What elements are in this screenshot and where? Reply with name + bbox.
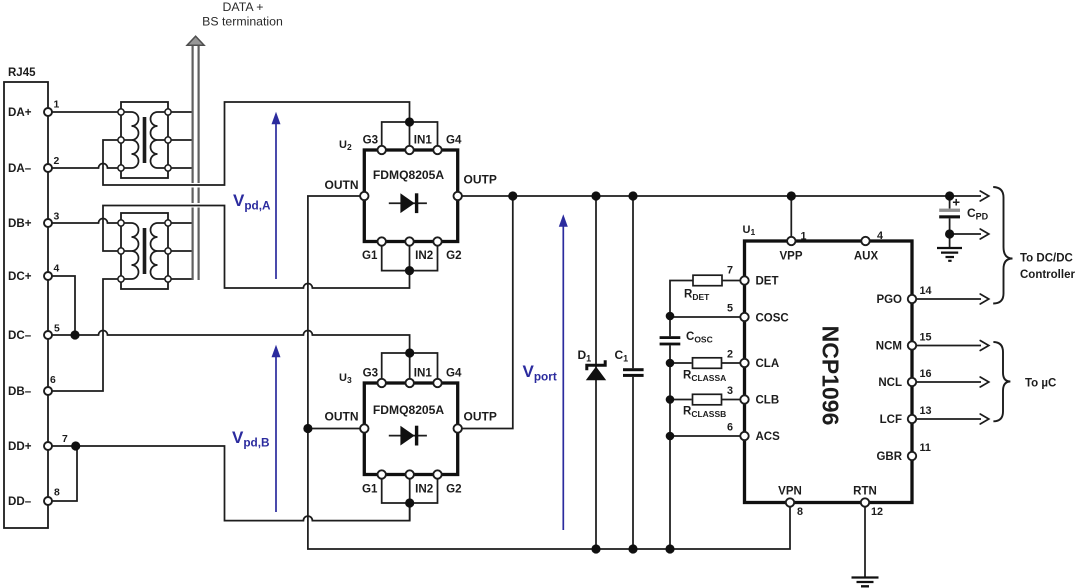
voltage arrow Vport xyxy=(559,214,568,530)
svg-text:G1: G1 xyxy=(362,482,378,495)
svg-text:FDMQ8205A: FDMQ8205A xyxy=(373,403,445,417)
junction top rail at C1 xyxy=(628,191,637,200)
svg-text:11: 11 xyxy=(920,442,931,454)
arrowhead NCM xyxy=(980,341,989,351)
U1 pin name labels left xyxy=(756,276,789,444)
voltage arrow Vpd,B xyxy=(272,345,281,512)
wire CLB pin 3 through RCLASSB xyxy=(670,399,740,401)
U2 internal diode symbol xyxy=(389,193,427,213)
op bridge U2 body xyxy=(364,150,457,242)
wire U2 top gate bracket G3-IN1-G4 xyxy=(382,122,438,146)
svg-text:2: 2 xyxy=(727,349,733,361)
svg-text:OUTP: OUTP xyxy=(464,410,497,424)
svg-text:12: 12 xyxy=(871,506,883,518)
svg-text:FDMQ8205A: FDMQ8205A xyxy=(373,168,445,182)
wire U2 bottom bracket and IN2 rail to T2 center-tap xyxy=(103,206,438,289)
wire U3 bottom gate bracket and IN2 stub xyxy=(382,479,438,521)
svg-text:DET: DET xyxy=(756,276,779,288)
svg-text:DC+: DC+ xyxy=(8,270,32,283)
svg-text:To µC: To µC xyxy=(1025,378,1056,390)
arrowhead CPD node to DC/DC xyxy=(980,229,989,239)
junction CPD lower node xyxy=(945,229,954,238)
svg-text:OUTN: OUTN xyxy=(325,410,359,424)
svg-text:DB+: DB+ xyxy=(8,217,32,230)
svg-text:DA–: DA– xyxy=(8,162,32,175)
svg-text:G3: G3 xyxy=(363,366,379,379)
RJ45 pin 5 circle xyxy=(44,331,52,339)
junction top rail at U3 OUTP riser xyxy=(508,191,517,200)
svg-text:16: 16 xyxy=(920,368,932,380)
class network junction at COSC pin xyxy=(666,312,675,321)
wire T1 center-tap to top rail to U2 IN1 xyxy=(103,102,410,185)
wire COSC pin 5 xyxy=(670,316,740,318)
svg-text:IN1: IN1 xyxy=(414,366,433,379)
wire PGO arrow xyxy=(916,298,981,300)
svg-text:IN2: IN2 xyxy=(415,249,433,262)
junction top rail at VPP xyxy=(787,191,796,200)
svg-text:G2: G2 xyxy=(446,482,461,495)
RJ45 pin 6 circle xyxy=(44,387,52,395)
wire RJ45 pin4 DC+ down to DC- node xyxy=(52,276,75,335)
capacitor CPD plates xyxy=(939,199,960,219)
ground symbol below CPD xyxy=(937,248,962,261)
svg-text:To DC/DC: To DC/DC xyxy=(1020,253,1073,265)
U3 pin name labels xyxy=(362,366,462,495)
capacitor COSC xyxy=(660,336,681,345)
svg-text:15: 15 xyxy=(920,332,932,344)
ground symbol below RTN xyxy=(852,578,879,587)
controller U1 NCP1096 body xyxy=(745,241,913,503)
transformer T1 terminals xyxy=(118,109,171,171)
svg-text:5: 5 xyxy=(54,324,60,335)
wire LCF arrow xyxy=(916,418,981,420)
svg-text:4: 4 xyxy=(877,230,883,242)
arrowhead LCF xyxy=(980,414,989,424)
svg-text:G4: G4 xyxy=(446,366,462,379)
junction U3 IN2 node xyxy=(405,498,414,507)
svg-text:CLA: CLA xyxy=(756,358,780,370)
RJ45 pin 3 circle xyxy=(44,219,52,227)
resistor RCLASSB body xyxy=(693,394,722,405)
wire D1 branch xyxy=(595,196,597,549)
pin labels RJ45 xyxy=(8,106,32,508)
wire CLA pin 2 through RCLASSA xyxy=(670,362,740,364)
RJ45 pin 8 circle xyxy=(44,497,52,505)
wire ACS pin 6 xyxy=(670,435,740,437)
svg-text:1: 1 xyxy=(54,100,60,111)
wire NCL arrow xyxy=(916,381,981,383)
svg-text:GBR: GBR xyxy=(876,451,902,463)
brace To DC/DC Controller xyxy=(993,187,1012,304)
svg-text:8: 8 xyxy=(797,506,803,518)
svg-text:IN2: IN2 xyxy=(415,482,433,495)
svg-text:6: 6 xyxy=(727,422,733,434)
U1 pin circles xyxy=(740,237,916,507)
svg-text:DD+: DD+ xyxy=(8,440,32,453)
arrowhead NCL xyxy=(980,377,989,387)
junction bottom rail at class network xyxy=(665,544,674,553)
label To DC/DC Controller xyxy=(1020,253,1075,282)
transformer T1 body xyxy=(121,102,168,178)
wire U2 OUTN to OUTN bus down to bottom rail and VPN xyxy=(308,196,790,549)
svg-text:3: 3 xyxy=(54,212,60,223)
junction OUTN bus at U3 xyxy=(303,424,312,433)
svg-text:DATA +: DATA + xyxy=(223,0,264,14)
svg-text:DA+: DA+ xyxy=(8,106,32,119)
junction bottom rail at C1 xyxy=(628,544,637,553)
wire RJ45 pin6 DB- riser to T2 bottom-left xyxy=(52,279,121,391)
TVS diode D1 xyxy=(587,360,605,380)
svg-text:8: 8 xyxy=(54,488,60,499)
svg-text:NCM: NCM xyxy=(876,341,902,353)
svg-text:VPP: VPP xyxy=(779,251,802,263)
junction top rail at CPD xyxy=(945,191,954,200)
svg-text:2: 2 xyxy=(54,156,60,167)
class network junction at CLA pin xyxy=(666,359,675,368)
svg-text:OUTP: OUTP xyxy=(464,173,497,187)
junction RJ45 DD pair node xyxy=(71,441,80,450)
wire RDET to class network vertical line xyxy=(670,281,740,550)
svg-text:RJ45: RJ45 xyxy=(8,67,36,79)
brace To uC xyxy=(993,342,1010,421)
svg-text:RTN: RTN xyxy=(853,486,877,498)
svg-text:NCP1096: NCP1096 xyxy=(818,326,844,426)
U1 pin name labels top xyxy=(779,251,878,263)
svg-text:VPN: VPN xyxy=(778,486,802,498)
svg-text:Controller: Controller xyxy=(1020,269,1075,281)
wire RJ45 pin3 DB+ to T2 top-left with hop over CT riser xyxy=(52,219,121,224)
wire U3 OUTP riser to top rail xyxy=(462,196,513,429)
RJ45 pin 7 circle xyxy=(44,442,52,450)
svg-text:G3: G3 xyxy=(363,134,379,147)
junction U2 IN2 node xyxy=(405,266,414,275)
arrowhead top rail to DC/DC xyxy=(980,191,989,201)
wire DC rail pin5 to U3 IN1 with hops xyxy=(52,331,410,354)
pin numbers RJ45 1-8 xyxy=(50,100,68,499)
DATA BS termination arrowhead xyxy=(187,36,204,45)
U1 pin numbers xyxy=(727,230,932,518)
transformer T2 terminals xyxy=(118,220,171,282)
U3 internal diode symbol xyxy=(389,426,427,446)
svg-text:IN1: IN1 xyxy=(414,134,433,147)
svg-text:6: 6 xyxy=(50,375,56,386)
U2 pin name labels xyxy=(362,134,462,263)
wire CPD lower node arrow to DC/DC xyxy=(950,233,981,235)
RJ45 pin 2 circle xyxy=(44,164,52,172)
svg-text:ACS: ACS xyxy=(756,431,781,443)
U2 terminals G3 IN1 G4 OUTN OUTP G1 IN2 G2 xyxy=(360,146,462,246)
transformer T2 body xyxy=(121,213,168,289)
wire RJ45 pin8 DD- up to DD+ node xyxy=(52,446,77,501)
svg-text:G2: G2 xyxy=(446,249,461,262)
svg-text:G4: G4 xyxy=(446,134,462,147)
wire RJ45 pin2 DA- to T1 bottom-left with hop over CT riser xyxy=(52,164,121,169)
svg-text:CLB: CLB xyxy=(756,395,780,407)
junction RJ45 DC pair node xyxy=(70,330,79,339)
svg-text:DB–: DB– xyxy=(8,385,32,398)
wire C1 branch xyxy=(632,196,634,549)
U1 pin name labels right xyxy=(876,294,903,463)
svg-text:4: 4 xyxy=(54,264,60,275)
svg-text:DC–: DC– xyxy=(8,329,32,342)
junction U2 IN1 node xyxy=(405,117,414,126)
U1 pin name labels bottom xyxy=(778,486,877,498)
wire T2 secondary to data termination bus xyxy=(171,223,192,279)
junction U3 IN1 node xyxy=(405,348,414,357)
wire CPD branch xyxy=(949,196,951,248)
RJ45 connector body xyxy=(4,82,48,528)
class network junction at CLB pin xyxy=(666,395,675,404)
U3 terminals G3 IN1 G4 OUTN OUTP G1 IN2 G2 xyxy=(360,379,462,479)
svg-text:5: 5 xyxy=(727,303,733,315)
svg-text:AUX: AUX xyxy=(854,251,879,263)
junction bottom rail at D1 xyxy=(591,544,600,553)
svg-text:LCF: LCF xyxy=(880,414,902,426)
class network junction at ACS pin xyxy=(666,432,675,441)
wire T1 secondary to data termination bus xyxy=(171,112,192,168)
svg-text:7: 7 xyxy=(62,434,68,445)
svg-text:DD–: DD– xyxy=(8,495,32,508)
voltage arrow Vpd,A xyxy=(272,112,281,279)
arrowhead PGO xyxy=(980,294,989,304)
svg-text:14: 14 xyxy=(920,285,932,297)
label DATA + BS termination xyxy=(202,0,283,29)
svg-text:PGO: PGO xyxy=(876,294,902,306)
resistor RDET body xyxy=(693,275,722,286)
svg-text:COSC: COSC xyxy=(756,313,789,325)
svg-text:13: 13 xyxy=(920,405,932,417)
wire RJ45 pin1 DA+ to T1 top-left xyxy=(52,111,121,113)
svg-text:NCL: NCL xyxy=(878,377,902,389)
svg-text:OUTN: OUTN xyxy=(325,178,359,192)
svg-text:1: 1 xyxy=(801,231,807,243)
svg-text:3: 3 xyxy=(727,385,733,397)
RJ45 pin 1 circle xyxy=(44,108,52,116)
wire RTN to ground xyxy=(864,507,866,577)
op bridge U3 body xyxy=(364,383,457,475)
RJ45 pin 4 circle xyxy=(44,272,52,280)
svg-text:BS termination: BS termination xyxy=(202,15,283,29)
svg-text:7: 7 xyxy=(727,265,733,277)
DATA BS termination arrow shaft xyxy=(193,45,199,280)
capacitor C1 xyxy=(623,368,644,377)
resistor RCLASSA body xyxy=(693,358,722,369)
wire VPP riser to top rail xyxy=(790,196,792,237)
svg-text:G1: G1 xyxy=(362,249,378,262)
wire DD rail pin7 to U3 IN2 with hop xyxy=(52,446,410,521)
wire U2 OUTP top rail to DC/DC arrow xyxy=(462,195,981,197)
wire U3 top gate bracket G3-IN1-G4 xyxy=(382,353,438,379)
wire U3 OUTN to OUTN bus xyxy=(308,428,360,430)
junction top rail at D1 xyxy=(591,191,600,200)
wire NCM arrow xyxy=(916,345,981,347)
